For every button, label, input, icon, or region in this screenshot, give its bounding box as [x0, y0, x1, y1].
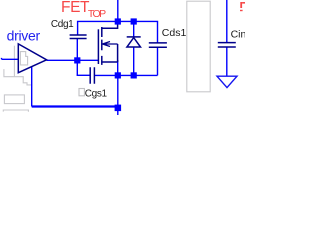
wire: driver return vertical [31, 66, 33, 106]
svg-text:Cds1: Cds1 [162, 27, 187, 39]
wire: Cds1 bottom to rail [157, 47, 159, 75]
wire: top rail from Cdg1 to Cds1 [78, 21, 158, 43]
svg-text:Cdg1: Cdg1 [51, 19, 74, 30]
node: drain junction on top rail [115, 18, 121, 24]
wire: MOSFET source vertical to rail [117, 60, 119, 75]
wire: diode cathode to top rail [133, 22, 135, 37]
node: bottom return junction [115, 105, 122, 112]
grayed vertical line left of driver [13, 46, 15, 77]
node: source junction on bottom rail [115, 72, 121, 78]
grayed label box of Cgs1 [79, 89, 84, 96]
MOSFET FET_TOP: drain stub [102, 22, 118, 28]
wire: Cin bottom to ground [226, 47, 228, 76]
wire: gate node vertical (Cdg1 bottom to Cgs1 bend) [76, 39, 78, 76]
svg-text:FET: FET [61, 0, 90, 16]
label: Cin [231, 29, 247, 41]
body diode D1: anode triangle [127, 38, 141, 47]
body diode D1: cathode bar [127, 36, 141, 38]
driver U1 (buffer triangle) [18, 44, 46, 73]
capacitor Cgs1 plates [90, 67, 94, 84]
grayed bracket bottom-left [3, 110, 28, 112]
node: diode junction on bottom rail [131, 72, 137, 78]
capacitor Cin plates [218, 43, 236, 47]
capacitor Cdg1 plates [70, 35, 87, 39]
wire: Cin top to supply [226, 0, 228, 43]
MOSFET FET_TOP: source stub [102, 44, 118, 62]
wire: diode anode to source rail [133, 47, 135, 75]
grayed small box bottom-left [4, 95, 24, 104]
svg-text:TOP: TOP [88, 8, 106, 20]
wire: bend to Cgs1 left plate [77, 74, 90, 76]
wire: driver input [2, 58, 19, 59]
wire: top supply drop to drain junction [117, 0, 119, 21]
grayed component outline (right block) [187, 1, 210, 92]
wire: rail down-leg to bottom node [117, 75, 119, 115]
MOSFET FET_TOP: body arrow [102, 42, 118, 47]
capacitor Cds1 plates [149, 43, 167, 47]
node: diode junction on top rail [131, 18, 137, 24]
wire: bottom return (thick) [32, 105, 118, 107]
wire: source rail Cgs1 right plate to Cds1 [95, 74, 158, 76]
wire: driver output to gate bar [47, 59, 99, 61]
label: driver [7, 27, 41, 43]
label: Cgs1 [85, 88, 108, 99]
ground [217, 76, 237, 87]
node: gate junction [74, 57, 80, 63]
label: FET_TOP [61, 0, 106, 20]
grayed staircase outline under driver [4, 69, 32, 85]
label: Cdg1 [51, 19, 74, 30]
svg-text:driver: driver [7, 27, 41, 43]
MOSFET FET_TOP: gate bar [97, 29, 99, 64]
label: clipped red text at top-right corner [240, 2, 245, 11]
svg-text:Cgs1: Cgs1 [85, 88, 108, 99]
MOSFET FET_TOP: channel segments [101, 27, 103, 65]
svg-text:Cin: Cin [231, 29, 245, 41]
label: Cds1 [162, 27, 187, 39]
grayed glyph inside driver triangle [20, 52, 27, 65]
